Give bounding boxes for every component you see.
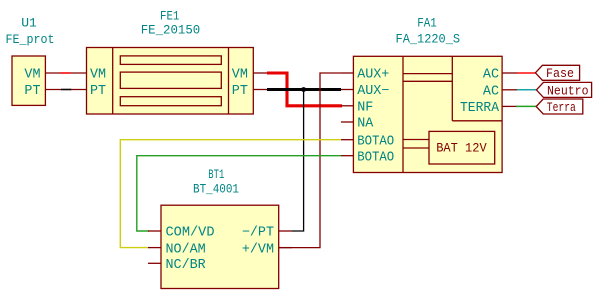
svg-text:U1: U1 (21, 16, 37, 31)
svg-text:NO/AM: NO/AM (166, 242, 206, 257)
svg-text:AUX+: AUX+ (357, 68, 389, 83)
svg-text:VM: VM (24, 68, 40, 83)
svg-text:BOTAO: BOTAO (357, 150, 394, 165)
svg-text:Neutro: Neutro (547, 83, 589, 98)
svg-text:COM/VD: COM/VD (166, 226, 215, 241)
svg-text:BT_4001: BT_4001 (193, 182, 239, 197)
svg-text:AUX−: AUX− (357, 84, 389, 99)
svg-text:FA_1220_S: FA_1220_S (396, 32, 461, 47)
svg-text:Fase: Fase (546, 66, 574, 81)
svg-text:AC: AC (483, 85, 499, 100)
svg-text:NC/BR: NC/BR (166, 258, 206, 273)
svg-text:−/PT: −/PT (242, 226, 274, 241)
svg-text:FE1: FE1 (160, 9, 179, 24)
svg-text:PT: PT (90, 84, 106, 99)
svg-text:AC: AC (483, 68, 499, 83)
svg-text:PT: PT (24, 84, 40, 99)
svg-text:VM: VM (232, 68, 248, 83)
svg-text:VM: VM (90, 68, 106, 83)
svg-text:BT1: BT1 (208, 167, 224, 182)
svg-text:FA1: FA1 (417, 16, 437, 31)
svg-text:Terra: Terra (547, 100, 576, 115)
svg-text:NA: NA (357, 117, 374, 132)
svg-text:FE_prot: FE_prot (6, 32, 55, 47)
svg-text:NF: NF (357, 101, 373, 116)
svg-text:+/VM: +/VM (242, 242, 274, 257)
svg-text:FE_20150: FE_20150 (141, 23, 201, 38)
svg-text:PT: PT (232, 84, 248, 99)
svg-text:BAT 12V: BAT 12V (436, 140, 487, 155)
svg-text:TERRA: TERRA (460, 101, 500, 116)
svg-text:BOTAO: BOTAO (357, 134, 394, 149)
